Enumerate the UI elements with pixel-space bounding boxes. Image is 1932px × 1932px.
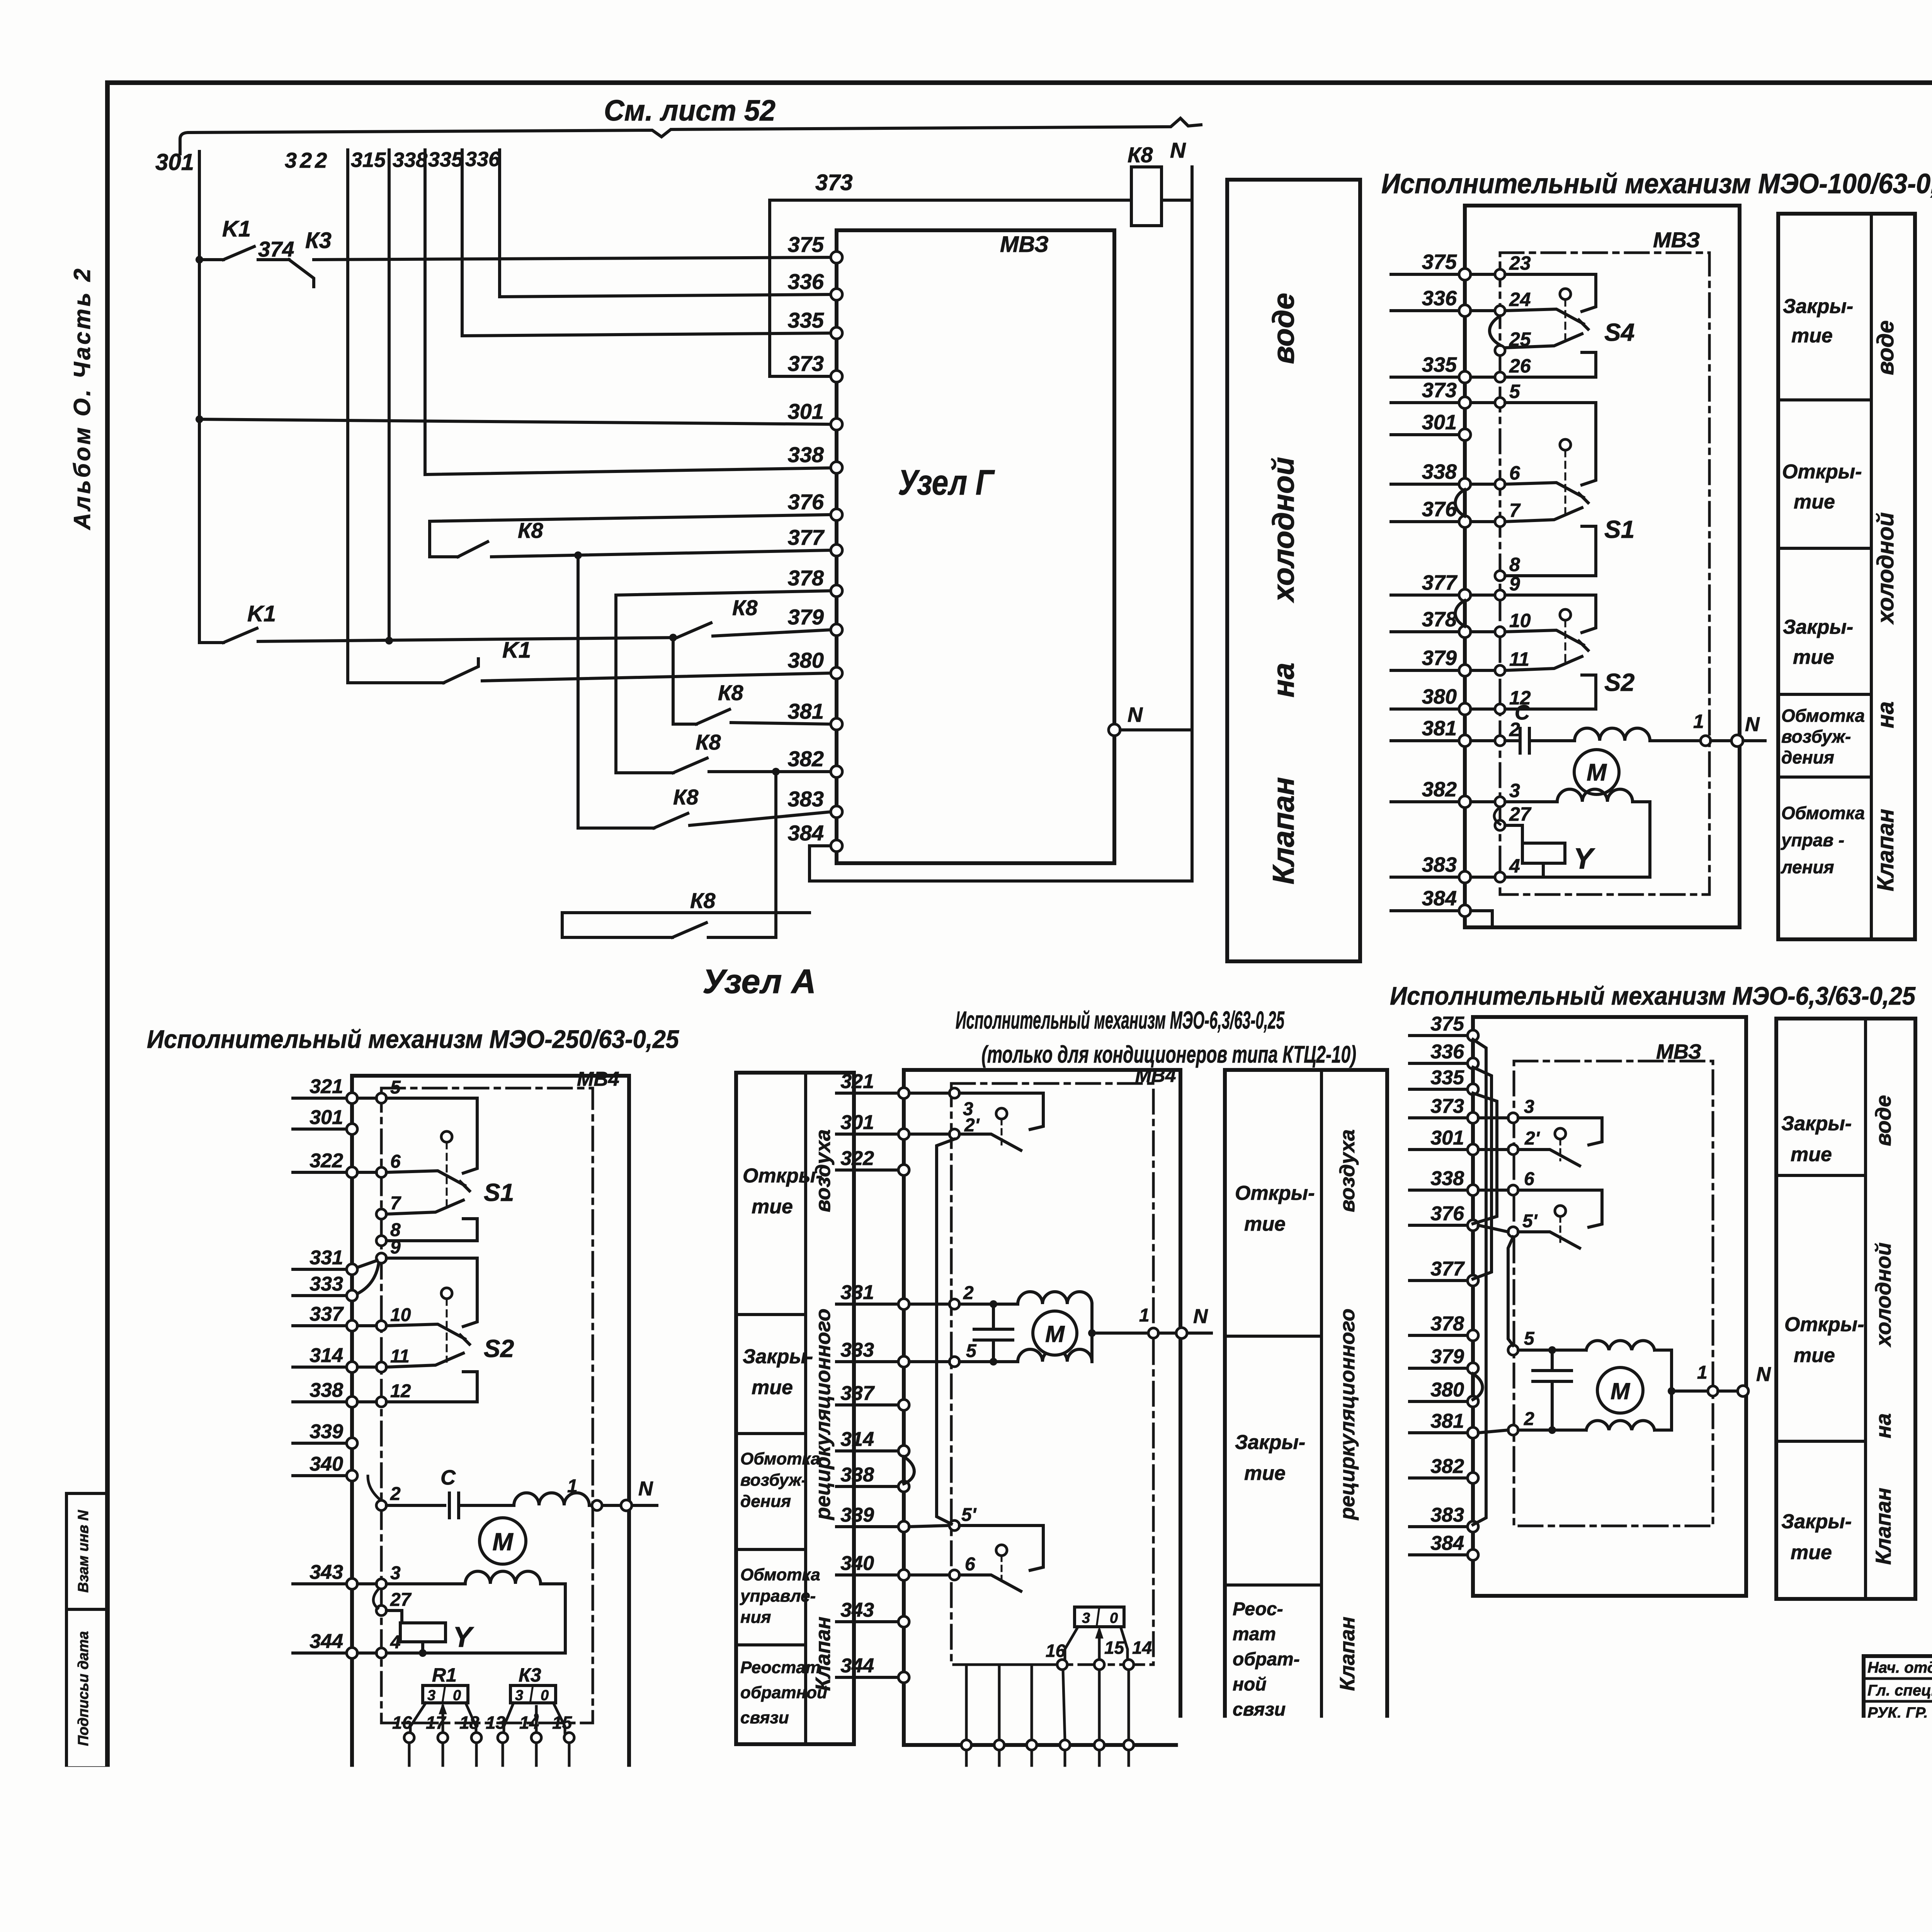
svg-text:376: 376	[788, 490, 824, 514]
limit switch S2 actuator	[1560, 609, 1571, 620]
terminal 339 МЭО-250	[347, 1438, 357, 1449]
terminal-pin link	[1471, 273, 1495, 276]
terminal 340 МЭО-6,3-1	[898, 1570, 909, 1580]
pin 7 МЭО-250	[376, 1209, 386, 1219]
capacitor C МЭО-100	[1519, 728, 1522, 753]
svg-text:воде: воде	[1871, 1095, 1895, 1146]
pin 2' МЭО-6,3-1	[949, 1129, 959, 1139]
svg-text:тие: тие	[1791, 325, 1833, 347]
bottom terminal x2670	[1027, 1740, 1037, 1750]
svg-text:Нач. отд.: Нач. отд.	[1867, 1659, 1932, 1676]
pin link wire	[568, 1743, 571, 1769]
pin 2 МЭО-6,3-1	[949, 1299, 959, 1309]
svg-text:2': 2'	[1524, 1128, 1540, 1149]
wire stub 377	[1410, 1279, 1467, 1282]
terminal-pin link	[1471, 630, 1495, 633]
terminal riser wire	[965, 1665, 968, 1740]
terminal N МЭО-100	[1731, 735, 1743, 747]
terminal-pin link	[357, 1171, 376, 1174]
pin 23 МЭО-100	[1495, 269, 1505, 279]
svg-text:333: 333	[840, 1339, 874, 1361]
terminal-pin link	[357, 1366, 376, 1369]
terminal 336 МЭО-100	[1459, 305, 1471, 316]
pin 1 МЭО-6,3-1	[1148, 1328, 1158, 1338]
svg-text:378: 378	[1430, 1313, 1464, 1335]
limit switch S2 actuator	[441, 1288, 452, 1299]
terminal 383 МЭО-100	[1459, 871, 1471, 883]
wire to capacitor	[1551, 1350, 1554, 1368]
terminal 376 МЭО-6,3-2	[1468, 1220, 1478, 1231]
wire	[1655, 1349, 1672, 1352]
svg-text:363: 363	[446, 1824, 474, 1843]
svg-text:10: 10	[1509, 610, 1531, 631]
terminal-pin link	[357, 1097, 376, 1100]
terminal 321 МЭО-6,3-1	[898, 1088, 909, 1099]
contact K8 (377) blade	[458, 542, 488, 557]
terminal 301 of Узел Г	[831, 418, 842, 430]
terminal 331 МЭО-250	[347, 1264, 357, 1275]
svg-text:К8: К8	[518, 518, 543, 543]
svg-text:тие: тие	[1794, 1344, 1835, 1367]
title block row line	[1864, 1723, 1932, 1725]
wire winding to pin 1	[1650, 739, 1700, 742]
terminal-pin link	[1471, 800, 1495, 803]
svg-text:Подписьи дата: Подписьи дата	[75, 1631, 92, 1746]
terminal-pin link 381-2	[1478, 1430, 1508, 1433]
svg-text:K1: K1	[222, 216, 251, 241]
svg-text:322: 322	[840, 1147, 874, 1170]
wire stub 383	[1410, 1525, 1467, 1528]
svg-text:Y: Y	[1573, 842, 1595, 875]
terminal 375 МЭО-100	[1459, 269, 1471, 280]
wire stub 331	[837, 1303, 898, 1306]
pin 1 МЭО-6,3-2	[1708, 1386, 1718, 1396]
jumper arc pins 3-27	[1494, 807, 1500, 824]
svg-text:366: 366	[505, 1824, 534, 1843]
table row line	[1778, 398, 1871, 401]
terminal 382 МЭО-100	[1459, 796, 1471, 808]
wire segment	[708, 936, 776, 939]
wire stub 379	[1391, 669, 1459, 672]
svg-text:Откры-: Откры-	[743, 1165, 823, 1187]
wire 339 to pin 5'	[909, 1526, 949, 1527]
riser bundle wire 336-377	[1473, 1067, 1492, 1279]
pin 5 МЭО-250	[376, 1093, 386, 1103]
pin 6 МЭО-6,3-2	[1508, 1185, 1518, 1195]
svg-text:375: 375	[788, 232, 824, 257]
relay coil K8 rectangle	[1131, 167, 1162, 226]
capacitor C МЭО-6,3-2	[1533, 1369, 1571, 1372]
limit switch S4 feed-top wire and fixed contact	[1505, 274, 1596, 311]
svg-text:N: N	[1170, 138, 1186, 162]
terminal-pin link	[909, 1360, 949, 1363]
svg-text:МВ4: МВ4	[1135, 1065, 1176, 1086]
wire stub 301	[1410, 1148, 1467, 1151]
wire stub 376	[1391, 520, 1459, 523]
contact S (3/2') МЭО-6,3-1 moving arm	[959, 1134, 1021, 1150]
bracket line См. лист 52	[180, 118, 1201, 154]
wire	[1655, 1429, 1672, 1432]
svg-text:6: 6	[1509, 462, 1520, 484]
wire stub 373	[1410, 1116, 1467, 1119]
svg-text:381: 381	[1430, 1410, 1464, 1432]
terminal-pin link	[357, 1400, 376, 1403]
wire 336 run	[500, 294, 831, 297]
svg-text:362: 362	[412, 1824, 440, 1843]
wire stub 384	[1410, 1553, 1467, 1556]
svg-text:управ -: управ -	[1781, 830, 1844, 850]
wire control loop	[1505, 802, 1650, 877]
svg-text:Узел Г: Узел Г	[898, 463, 995, 502]
svg-text:314: 314	[310, 1344, 343, 1367]
wire pin1 to N	[1158, 1332, 1176, 1335]
wire pin 5 run	[959, 1360, 1018, 1363]
svg-text:322: 322	[285, 148, 330, 172]
terminal-pin link	[357, 1651, 376, 1655]
terminal bottom 13	[498, 1769, 508, 1779]
svg-text:Клапан: Клапан	[811, 1617, 835, 1691]
svg-text:380: 380	[1422, 685, 1457, 708]
svg-text:N: N	[1193, 1305, 1208, 1328]
svg-text:331: 331	[840, 1281, 874, 1304]
svg-text:381: 381	[788, 699, 824, 723]
svg-text:Клапан: Клапан	[1336, 1617, 1359, 1691]
wire stub 380	[1410, 1400, 1467, 1403]
limit switch S2 moving arm 1	[1505, 630, 1583, 645]
wire 373 horizontal	[770, 199, 1131, 202]
pin link wire	[475, 1743, 478, 1769]
wire return segment	[562, 913, 810, 937]
terminal 336 МЭО-6,3-2	[1468, 1058, 1478, 1069]
wire stub 314	[837, 1449, 898, 1452]
svg-text:340: 340	[310, 1453, 343, 1475]
control winding МЭО-250	[465, 1571, 541, 1584]
svg-text:3: 3	[427, 1687, 435, 1704]
capacitor C МЭО-6,3-1	[974, 1328, 1013, 1331]
svg-text:301: 301	[840, 1111, 874, 1134]
svg-text:тие: тие	[1791, 1541, 1832, 1564]
pin 13 МЭО-250	[498, 1733, 508, 1743]
pin 11 МЭО-250	[376, 1362, 386, 1372]
wire stub 333	[837, 1360, 898, 1363]
svg-text:S2: S2	[484, 1335, 514, 1362]
wire stub 343	[293, 1582, 346, 1585]
terminal 376 of Узел Г	[831, 509, 842, 520]
net N vertical wire	[1190, 167, 1194, 881]
terminal 373 МЭО-6,3-2	[1468, 1112, 1478, 1123]
terminal-pin link	[1471, 401, 1495, 404]
terminal stub wire	[502, 1779, 504, 1842]
terminal 301 МЭО-6,3-2	[1468, 1144, 1478, 1155]
svg-text:Гл. спец.: Гл. спец.	[1867, 1682, 1932, 1699]
limit switch S1 moving arm 1	[386, 1171, 465, 1185]
svg-text:11: 11	[390, 1346, 410, 1367]
table row line	[736, 1313, 806, 1316]
winding lower МЭО-6,3-1	[1018, 1349, 1092, 1362]
svg-text:М: М	[1611, 1378, 1631, 1404]
svg-text:18: 18	[459, 1713, 480, 1733]
wire stub 338	[1410, 1189, 1467, 1192]
svg-text:333: 333	[310, 1273, 343, 1295]
pin link wire	[408, 1743, 411, 1769]
terminal 301 МЭО-6,3-1	[898, 1129, 909, 1139]
terminal-pin link	[909, 1573, 949, 1577]
table row line	[1225, 1335, 1321, 1338]
svg-text:Закры-: Закры-	[1781, 1112, 1852, 1135]
terminal-pin link	[1471, 594, 1495, 597]
wire stub N	[1743, 739, 1765, 742]
title block row line	[1864, 1790, 1932, 1793]
svg-text:Закры-: Закры-	[1781, 1510, 1852, 1533]
motor M МЭО-100	[1574, 750, 1619, 794]
terminal bottom 16	[404, 1769, 414, 1779]
wire stub 382	[1410, 1476, 1467, 1480]
svg-text:возбуж-: возбуж-	[1781, 726, 1851, 747]
svg-text:N: N	[1128, 703, 1143, 726]
svg-text:Обмотка: Обмотка	[1781, 803, 1865, 823]
terminal-pin link	[1471, 376, 1495, 379]
svg-text:Обмотка: Обмотка	[740, 1449, 820, 1468]
svg-text:337: 337	[310, 1303, 344, 1325]
svg-text:1: 1	[1697, 1362, 1708, 1383]
svg-text:Обмотка: Обмотка	[1781, 706, 1865, 726]
pin 2' МЭО-6,3-2	[1508, 1145, 1518, 1155]
wire 376 run	[430, 515, 831, 557]
svg-text:тие: тие	[1793, 646, 1834, 668]
svg-text:13: 13	[486, 1713, 506, 1733]
pin 10 МЭО-100	[1495, 627, 1505, 637]
pin 1 МЭО-100	[1701, 736, 1711, 746]
motor M МЭО-6,3-2	[1597, 1367, 1643, 1413]
terminal 338 of Узел Г	[831, 462, 842, 473]
terminal 382 МЭО-6,3-2	[1468, 1473, 1478, 1483]
wire stub 338	[293, 1400, 346, 1403]
node junction 379	[669, 634, 677, 641]
svg-text:339: 339	[840, 1504, 874, 1526]
pin 24 МЭО-100	[1495, 306, 1505, 316]
limit switch S4 actuator	[1560, 289, 1571, 299]
wire stub 338	[837, 1485, 898, 1488]
svg-text:301: 301	[310, 1106, 343, 1129]
svg-text:холодной: холодной	[1266, 457, 1300, 604]
svg-text:N: N	[1745, 713, 1760, 736]
pin 8 МЭО-250	[376, 1236, 386, 1246]
pin link wire	[535, 1743, 538, 1769]
wire motor output	[1672, 1389, 1707, 1393]
svg-text:Откры-: Откры-	[1782, 461, 1862, 483]
wire to terminal 375	[314, 257, 831, 260]
svg-text:6: 6	[390, 1151, 401, 1172]
svg-text:2: 2	[1524, 1409, 1534, 1429]
terminal 383 of Узел Г	[831, 806, 842, 818]
terminal-pin link	[1471, 876, 1495, 879]
terminal stub wire	[535, 1779, 538, 1842]
svg-text:рециркуляционного: рециркуляционного	[811, 1309, 835, 1521]
wire stub 340	[837, 1573, 898, 1577]
wire stub 336	[1391, 309, 1459, 312]
link wire 2' to 5'	[937, 1139, 954, 1524]
terminal riser wire	[998, 1665, 1001, 1740]
terminal 322 МЭО-6,3-1	[898, 1165, 909, 1175]
svg-text:336: 336	[465, 148, 500, 171]
limit switch S2 moving arm 1	[386, 1324, 465, 1339]
pin 3 МЭО-6,3-2	[1508, 1113, 1518, 1123]
terminal 382 of Узел Г	[831, 766, 842, 777]
svg-text:5': 5'	[1522, 1211, 1538, 1231]
svg-text:374: 374	[258, 237, 294, 261]
svg-text:Закры-: Закры-	[743, 1345, 813, 1368]
pin 14 МЭО-250	[531, 1733, 541, 1743]
svg-text:375: 375	[1430, 1013, 1464, 1035]
svg-text:дения: дения	[740, 1492, 791, 1511]
pin link wire	[442, 1743, 444, 1769]
terminal 333 МЭО-250	[347, 1290, 357, 1301]
svg-text:РУК. ГР.: РУК. ГР.	[1867, 1704, 1928, 1721]
svg-text:336: 336	[1422, 287, 1457, 310]
wire pin 2 run	[959, 1303, 1018, 1306]
pin 2 МЭО-250	[376, 1500, 386, 1510]
svg-text:11: 11	[1509, 648, 1529, 670]
svg-text:К8: К8	[696, 730, 721, 754]
left margin box Инв N подл	[66, 1768, 107, 1857]
pin 17 МЭО-250	[438, 1733, 448, 1743]
svg-text:воде: воде	[1872, 320, 1898, 375]
svg-text:373: 373	[788, 351, 824, 376]
svg-text:365: 365	[1034, 1822, 1062, 1841]
wire pin1 to N	[1718, 1389, 1737, 1393]
wire stub 301	[837, 1133, 898, 1136]
svg-text:S1: S1	[1604, 515, 1634, 543]
wire motor output	[1092, 1332, 1148, 1335]
svg-text:2: 2	[390, 1484, 401, 1504]
terminal stub wire	[965, 1750, 968, 1842]
motor M МЭО-250	[480, 1518, 526, 1564]
svg-text:17: 17	[426, 1713, 447, 1733]
wire stub 338	[1391, 483, 1459, 486]
pin 5' МЭО-6,3-2	[1508, 1227, 1518, 1237]
svg-text:воздуха: воздуха	[811, 1129, 835, 1213]
terminal bottom 18	[471, 1769, 481, 1779]
svg-text:дения: дения	[1781, 747, 1834, 767]
wire stub 331	[293, 1268, 346, 1271]
svg-text:0: 0	[1110, 1610, 1118, 1626]
svg-text:337: 337	[840, 1382, 875, 1405]
svg-text:ния: ния	[740, 1608, 771, 1627]
svg-text:7: 7	[390, 1193, 401, 1214]
svg-text:связи: связи	[740, 1708, 789, 1727]
svg-text:М: М	[1587, 759, 1607, 786]
limit switch S2 feed-bottom wire and fixed contact	[1505, 675, 1596, 709]
wire stub 337	[293, 1324, 346, 1327]
jumper arc terminals 377-378	[1455, 600, 1465, 626]
node junction on bus 301	[196, 256, 203, 264]
wire pin 2 to capacitor	[1505, 739, 1520, 742]
table row line	[1225, 1583, 1321, 1587]
wire pin 27 stub	[386, 1609, 402, 1612]
contact S (3/2') МЭО-6,3-1 feed wire and fixed contact	[959, 1093, 1043, 1129]
svg-text:Узел А: Узел А	[702, 962, 816, 1000]
wire stub 378	[1410, 1334, 1467, 1337]
title block row line	[1864, 1858, 1932, 1861]
pin 6 МЭО-250	[376, 1167, 386, 1177]
svg-text:обрат-: обрат-	[1233, 1649, 1300, 1670]
wire stub 337	[837, 1403, 898, 1406]
svg-text:тие: тие	[1794, 491, 1835, 513]
svg-text:Обмотка: Обмотка	[740, 1565, 820, 1584]
svg-text:384: 384	[788, 821, 824, 845]
terminal bottom 15	[564, 1769, 574, 1779]
svg-text:Взам инв N: Взам инв N	[75, 1510, 92, 1593]
wire to terminal 381	[731, 723, 831, 724]
svg-text:3: 3	[1082, 1610, 1090, 1626]
table row line	[1778, 693, 1871, 696]
pin 11 МЭО-100	[1495, 665, 1505, 675]
title block row line	[1864, 1745, 1932, 1748]
terminal stub wire	[1031, 1750, 1033, 1842]
terminal 335 of Узел Г	[831, 327, 842, 339]
bus wire 301	[198, 151, 201, 643]
limit switch S4 feed-bottom wire and fixed contact	[1505, 352, 1596, 377]
terminal 375 of Узел Г	[831, 252, 842, 263]
terminal 379 МЭО-6,3-2	[1468, 1363, 1478, 1374]
contact S (3/2') МЭО-6,3-2 moving arm	[1518, 1150, 1580, 1166]
svg-text:К3: К3	[305, 228, 332, 253]
svg-text:тие: тие	[752, 1376, 793, 1399]
terminal 337 МЭО-250	[347, 1320, 357, 1331]
pin row wire	[959, 1663, 1057, 1666]
wire stub 336	[1410, 1062, 1467, 1065]
terminal bottom 14	[531, 1769, 541, 1779]
svg-text:344: 344	[840, 1655, 874, 1677]
pin 8 МЭО-100	[1495, 571, 1505, 581]
terminal N МЭО-250	[621, 1500, 632, 1511]
svg-text:К8: К8	[718, 680, 743, 705]
terminal 338 МЭО-6,3-2	[1468, 1185, 1478, 1196]
terminal N МЭО-6,3-1	[1176, 1328, 1187, 1338]
wire feeder 383	[577, 555, 580, 828]
svg-text:5: 5	[1509, 381, 1520, 402]
bus wire 322	[346, 150, 349, 683]
svg-text:К8: К8	[690, 888, 716, 913]
svg-text:338: 338	[788, 442, 824, 467]
wire 338 run	[425, 468, 831, 474]
svg-text:314: 314	[840, 1428, 874, 1451]
terminal-pin link	[1471, 739, 1495, 742]
limit switch S4 moving arm 2	[1505, 334, 1582, 348]
svg-text:2: 2	[963, 1283, 974, 1303]
svg-text:возбуж-: возбуж-	[740, 1471, 807, 1490]
wire stub 378	[1391, 630, 1459, 633]
contact S (5'/6) МЭО-6,3-1 moving arm	[959, 1575, 1021, 1591]
terminal-pin link	[1471, 669, 1495, 672]
svg-text:Закры-: Закры-	[1783, 616, 1853, 638]
pin 12 МЭО-250	[376, 1397, 386, 1407]
terminal 338 МЭО-250	[347, 1396, 357, 1407]
pin 5 МЭО-6,3-2	[1508, 1345, 1518, 1355]
terminal 343 МЭО-250	[347, 1578, 357, 1589]
terminal 321 МЭО-250	[347, 1093, 357, 1104]
link 333 jog	[357, 1264, 379, 1294]
svg-text:362: 362	[969, 1822, 998, 1841]
svg-text:15: 15	[552, 1713, 573, 1733]
svg-text:Исполнительный механизм МЭО-: Исполнительный механизм МЭО-250/63-0,25	[147, 1025, 679, 1053]
svg-text:тие: тие	[1791, 1143, 1832, 1166]
svg-text:335: 335	[1422, 353, 1457, 376]
svg-text:К8: К8	[673, 785, 699, 809]
terminal 378 of Узел Г	[831, 585, 842, 597]
terminal 344 МЭО-6,3-1	[898, 1672, 909, 1683]
contact S (5'/6) МЭО-6,3-1 feed wire and fixed contact	[959, 1526, 1043, 1570]
